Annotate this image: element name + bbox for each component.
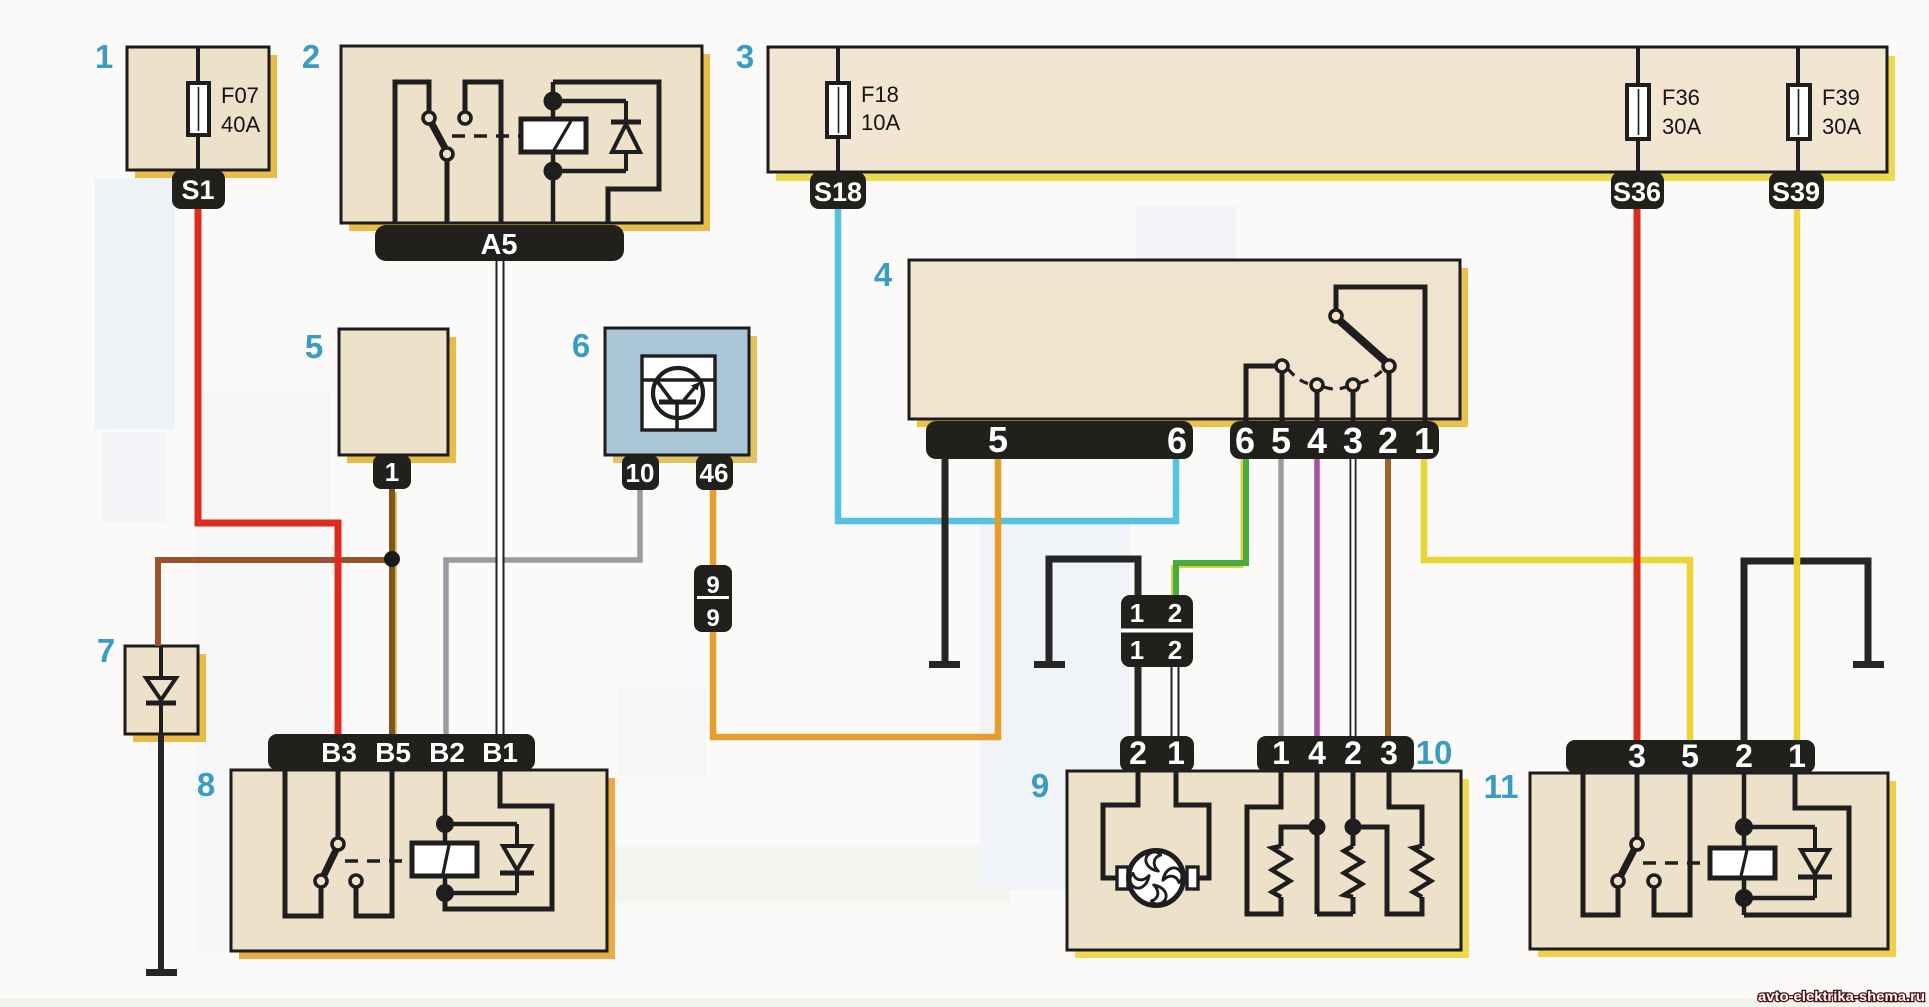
svg-text:S36: S36 — [1613, 177, 1661, 207]
svg-text:2: 2 — [1735, 738, 1753, 774]
svg-text:F18: F18 — [861, 82, 899, 107]
svg-text:40A: 40A — [221, 112, 260, 137]
svg-text:1: 1 — [95, 38, 113, 75]
svg-text:11: 11 — [1484, 768, 1519, 805]
svg-text:10: 10 — [1416, 734, 1453, 771]
svg-text:S39: S39 — [1772, 177, 1820, 207]
svg-text:F36: F36 — [1662, 85, 1700, 110]
svg-text:2: 2 — [1344, 735, 1362, 771]
svg-text:2: 2 — [1129, 735, 1147, 771]
svg-text:1: 1 — [1167, 735, 1185, 771]
svg-text:8: 8 — [197, 766, 215, 803]
svg-text:2: 2 — [1168, 598, 1182, 628]
svg-text:10A: 10A — [861, 110, 900, 135]
svg-text:30A: 30A — [1662, 114, 1701, 139]
svg-text:5: 5 — [1271, 420, 1291, 461]
svg-text:1: 1 — [1788, 738, 1806, 774]
svg-text:5: 5 — [988, 419, 1008, 460]
svg-text:7: 7 — [97, 632, 115, 669]
svg-text:2: 2 — [1168, 635, 1182, 665]
svg-text:S18: S18 — [814, 177, 862, 207]
svg-text:F07: F07 — [221, 83, 259, 108]
svg-text:6: 6 — [1235, 420, 1255, 461]
svg-text:1: 1 — [1130, 635, 1144, 665]
svg-text:4: 4 — [1307, 420, 1327, 461]
svg-text:1: 1 — [1130, 598, 1144, 628]
svg-text:9: 9 — [706, 605, 719, 632]
svg-text:3: 3 — [1628, 738, 1646, 774]
svg-text:B5: B5 — [375, 737, 411, 768]
svg-text:4: 4 — [874, 256, 893, 293]
svg-text:B2: B2 — [429, 737, 465, 768]
svg-text:B1: B1 — [482, 737, 518, 768]
svg-text:3: 3 — [1380, 735, 1398, 771]
svg-text:9: 9 — [1031, 767, 1049, 804]
svg-text:6: 6 — [1167, 420, 1187, 461]
svg-text:3: 3 — [736, 38, 754, 75]
svg-text:avto-elektrika-shema.ru: avto-elektrika-shema.ru — [1758, 989, 1925, 1004]
svg-text:1: 1 — [1414, 420, 1434, 461]
svg-text:2: 2 — [302, 38, 320, 75]
svg-text:46: 46 — [700, 458, 729, 488]
svg-text:A5: A5 — [480, 229, 517, 261]
svg-text:10: 10 — [626, 458, 655, 488]
svg-text:4: 4 — [1308, 735, 1326, 771]
svg-text:5: 5 — [305, 328, 323, 365]
svg-text:9: 9 — [706, 572, 719, 599]
svg-text:2: 2 — [1378, 420, 1398, 461]
svg-text:S1: S1 — [181, 175, 214, 205]
svg-text:1: 1 — [385, 457, 399, 487]
svg-text:F39: F39 — [1822, 85, 1860, 110]
svg-text:B3: B3 — [321, 737, 357, 768]
svg-text:5: 5 — [1681, 738, 1699, 774]
svg-text:3: 3 — [1343, 420, 1363, 461]
svg-text:1: 1 — [1272, 735, 1290, 771]
svg-text:30A: 30A — [1822, 114, 1861, 139]
svg-text:6: 6 — [572, 327, 590, 364]
